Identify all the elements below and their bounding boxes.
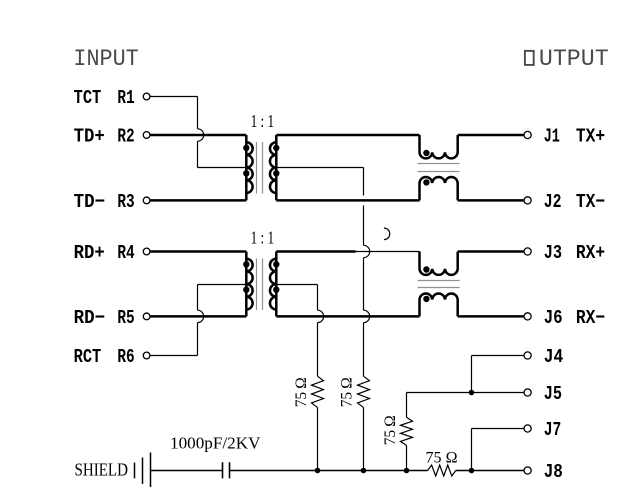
pin circle J8 (524, 467, 531, 474)
svg-text:75 Ω: 75 Ω (426, 449, 458, 466)
wire TCT R1 vertical upper (197, 97, 199, 129)
svg-text:J5: J5 (544, 383, 562, 405)
wire bottom bus resistor to J8 pin (456, 470, 524, 472)
choke L1 top winding (420, 135, 458, 158)
junction node A on bottom bus (361, 468, 367, 474)
wire RX primary center tap (198, 284, 247, 286)
wire node A vertical segment 3 (363, 258, 365, 311)
svg-text:J1: J1 (544, 126, 560, 148)
svg-text:R1: R1 (117, 87, 134, 109)
svg-text:R3: R3 (117, 191, 134, 213)
pin circle J4 (524, 352, 531, 359)
svg-text:1000pF/2KV: 1000pF/2KV (170, 434, 261, 453)
svg-text:RX+: RX+ (576, 242, 605, 264)
wire node A vertical segment 2 (gap at J2 crossing) (363, 206, 365, 246)
choke L1 bottom winding (420, 177, 458, 200)
choke L1 bottom dot (423, 179, 429, 185)
wire node B vertical segment 1 (317, 285, 319, 311)
wire RD+ R4 to RX primary winding top (150, 250, 246, 253)
pin circle J6 (524, 313, 531, 320)
wire J7 horizontal (472, 428, 525, 430)
svg-text:RD+: RD+ (74, 242, 105, 264)
wire choke L2 to J3 pin (458, 250, 524, 253)
wire RCT R6 vertical lower (197, 323, 199, 356)
shield symbol line 3 (150, 453, 152, 488)
wire J5 horizontal (407, 392, 525, 394)
wire J5 corner down to resistor (406, 393, 408, 418)
svg-text:SHIELD: SHIELD (75, 460, 129, 480)
wire choke L2 to J6 pin (458, 315, 524, 318)
resistor 75ohm J5 leg (401, 417, 413, 445)
resistor 75ohm bottom bus (428, 465, 456, 476)
wire hop R6 line over RD- line (198, 310, 204, 322)
title OUTPUT - square O glyph (525, 51, 534, 65)
junction J7 on bottom bus (469, 468, 475, 474)
pin circle J3 (524, 248, 531, 255)
wire TX primary center tap (198, 167, 247, 169)
svg-text:TX+: TX+ (576, 126, 605, 148)
wire J3 secondary top to node A crossing (thick part) (276, 250, 355, 253)
pin circle R5 (143, 313, 150, 320)
wire J6 secondary bottom to choke L2 (276, 315, 419, 318)
svg-text:RCT: RCT (74, 346, 102, 368)
svg-text:J3: J3 (544, 242, 562, 264)
choke L2 top winding (420, 252, 458, 275)
wire J7 drop to bottom bus (471, 429, 473, 471)
svg-text:1 : 1: 1 : 1 (251, 228, 275, 248)
svg-text:R6: R6 (117, 346, 134, 368)
wire J4 drop to J5 line (471, 356, 473, 393)
capacitor C1 1000pF/2KV plates (222, 462, 224, 478)
svg-text:J8: J8 (544, 461, 563, 483)
wire node A vertical segment 1 (363, 168, 365, 196)
pin circle R3 (143, 197, 150, 204)
stray hop arc near node A (384, 228, 390, 240)
svg-text:J7: J7 (544, 419, 562, 441)
wire RD- R5 to RX primary winding bottom (150, 315, 246, 318)
wire capacitor to bottom bus resistor (230, 470, 428, 472)
wire J4 horizontal (472, 355, 525, 357)
pin circle J1 (524, 131, 531, 138)
svg-text:TX−: TX− (576, 191, 605, 213)
resistor 75ohm in node B leg (312, 376, 324, 407)
choke L1 top dot (423, 150, 429, 156)
wire TCT R1 vertical lower (197, 141, 199, 167)
svg-text:RX−: RX− (576, 307, 605, 329)
wire TCT R1 horizontal (150, 96, 198, 98)
transformer T1 secondary winding (275, 135, 278, 200)
junction J5 leg on bottom bus (404, 468, 410, 474)
wire shield to capacitor (151, 470, 223, 472)
shield symbol line 2 (142, 458, 144, 484)
junction node B on bottom bus (315, 468, 321, 474)
svg-text:75 Ω: 75 Ω (339, 377, 356, 407)
wire hop node A over J3 line (364, 245, 370, 257)
wire node A to bottom bus (363, 407, 365, 470)
wire J1 secondary top to choke L1 (276, 134, 419, 137)
wire node B to bottom bus (317, 407, 319, 470)
svg-text:R5: R5 (117, 307, 134, 329)
svg-text:1 : 1: 1 : 1 (251, 111, 275, 131)
resistor 75ohm in node A leg (358, 376, 370, 407)
shield symbol line 1 (134, 463, 136, 479)
wire TD- R3 to primary winding bottom (150, 199, 246, 202)
wire J3 thin segment to choke L2 (356, 251, 420, 253)
wire hop node B over J6 line (318, 310, 324, 322)
transformer T2 core (256, 259, 258, 311)
transformer T1 core (256, 142, 258, 194)
pin circle R1 (143, 93, 150, 100)
svg-text:TD+: TD+ (74, 126, 105, 148)
svg-text:J2: J2 (544, 191, 562, 213)
wire TX secondary center tap to node A (276, 167, 363, 169)
transformer T2 secondary winding (275, 252, 278, 317)
svg-text:R2: R2 (117, 126, 134, 148)
wire node A vertical segment 4 (363, 323, 365, 377)
svg-text:TD−: TD− (74, 191, 106, 213)
pin circle J5 (524, 389, 531, 396)
wire node B vertical segment 2 (317, 323, 319, 377)
pin circle R6 (143, 352, 150, 359)
pin circle R2 (143, 132, 150, 139)
choke L2 core (418, 280, 460, 282)
svg-text:J6: J6 (544, 307, 563, 329)
choke L2 bottom dot (423, 296, 429, 302)
svg-text:75 Ω: 75 Ω (382, 415, 399, 445)
wire choke L1 to J2 pin (458, 199, 524, 202)
pin circle R4 (143, 248, 150, 255)
choke L1 core (418, 163, 460, 165)
wire RCT R6 horizontal (150, 355, 198, 357)
transformer T1 primary winding (245, 135, 248, 200)
wire RX secondary center tap to node B (276, 284, 317, 286)
wire choke L1 to J1 pin (458, 134, 524, 137)
svg-text:RD−: RD− (74, 307, 106, 329)
svg-text:INPUT: INPUT (73, 46, 138, 72)
wire hop node A over J6 line (364, 310, 370, 322)
wire RCT R6 vertical upper (197, 285, 199, 311)
wire J2 secondary bottom to choke L1 (276, 199, 419, 202)
svg-text:J4: J4 (544, 346, 564, 368)
choke L2 bottom winding (420, 293, 458, 316)
wire hop R1 line over TD+ line (198, 129, 204, 141)
transformer T2 primary winding (245, 252, 248, 317)
junction J4/J5 (469, 390, 475, 396)
svg-text:TCT: TCT (74, 87, 102, 109)
svg-text:R4: R4 (117, 242, 135, 264)
wire TD+ R2 to primary winding top (150, 134, 246, 137)
wire J5 resistor to bottom bus (406, 445, 408, 470)
pin circle J7 (524, 425, 531, 432)
choke L2 top dot (423, 266, 429, 272)
svg-text:75 Ω: 75 Ω (293, 377, 310, 407)
svg-text:UTPUT: UTPUT (539, 46, 609, 72)
pin circle J2 (524, 197, 531, 204)
